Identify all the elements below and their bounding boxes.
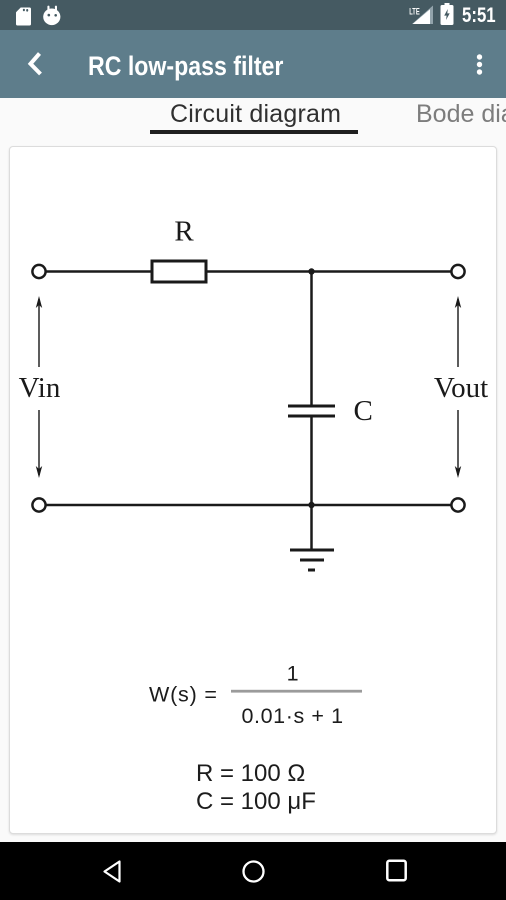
wire: resistor to top junction and to output terminal <box>206 270 451 273</box>
svg-text:LTE: LTE <box>409 7 420 18</box>
svg-text:C: C <box>354 395 373 427</box>
svg-text:R = 100 Ω: R = 100 Ω <box>196 760 305 787</box>
output terminal bottom-right <box>451 498 464 511</box>
ground <box>290 550 334 570</box>
wire: capacitor down to bottom junction <box>310 416 313 505</box>
value C = 100 μF <box>196 788 316 815</box>
tab: Bode diagram (unselected, clipped) <box>416 100 506 129</box>
Vin arrow upper segment <box>36 296 42 367</box>
status icon: LTE signal triangle <box>406 2 436 28</box>
label Vin <box>19 372 61 404</box>
nav recents square <box>386 859 407 882</box>
tab: Circuit diagram (selected) <box>170 100 341 129</box>
svg-text:0.01·s + 1: 0.01·s + 1 <box>241 704 343 728</box>
status icon: battery charging <box>440 3 454 25</box>
wire: bottom junction to ground <box>310 505 313 550</box>
denominator 0.01·s + 1 <box>241 704 343 728</box>
numerator 1 <box>287 662 299 686</box>
tab indicator <box>150 130 358 134</box>
Vout arrow upper segment <box>455 296 461 367</box>
label C <box>354 395 373 427</box>
svg-text:1: 1 <box>287 662 299 686</box>
svg-text:Vin: Vin <box>19 372 61 404</box>
value R = 100 Ω <box>196 760 305 787</box>
navigation bar <box>0 842 506 900</box>
wire: bottom rail <box>46 504 452 507</box>
status bar <box>0 0 506 30</box>
transfer function W(s) <box>149 683 218 707</box>
fraction bar <box>231 690 362 693</box>
wire: top junction down to capacitor <box>310 272 313 407</box>
card <box>9 146 497 834</box>
input terminal top-left <box>32 265 45 278</box>
svg-text:Vout: Vout <box>434 372 488 404</box>
status icon: android robot head <box>43 5 61 26</box>
svg-text:C = 100 μF: C = 100 μF <box>196 788 316 815</box>
resistor R <box>152 261 206 282</box>
svg-text:R: R <box>174 216 194 248</box>
app bar <box>0 30 506 98</box>
overflow menu dots <box>473 51 487 78</box>
back chevron <box>25 49 45 79</box>
status icon: sd card notification <box>16 7 31 26</box>
tab bar <box>0 98 506 140</box>
circuit schematic svg <box>9 146 497 834</box>
svg-text:W(s) =: W(s) = <box>149 683 218 707</box>
wire: top-left terminal to resistor <box>46 270 152 273</box>
Vin arrow lower segment <box>36 410 42 478</box>
Vout arrow lower segment <box>455 410 461 478</box>
junction node bottom <box>308 502 314 508</box>
input terminal bottom-left <box>32 498 45 511</box>
nav back triangle <box>101 859 122 884</box>
label R <box>174 216 194 248</box>
capacitor C <box>288 406 335 416</box>
output terminal top-right <box>451 265 464 278</box>
app bar title <box>88 51 283 82</box>
label Vout <box>434 372 488 404</box>
junction node top <box>308 268 314 274</box>
status bar clock <box>462 4 496 28</box>
nav home circle <box>242 860 265 883</box>
